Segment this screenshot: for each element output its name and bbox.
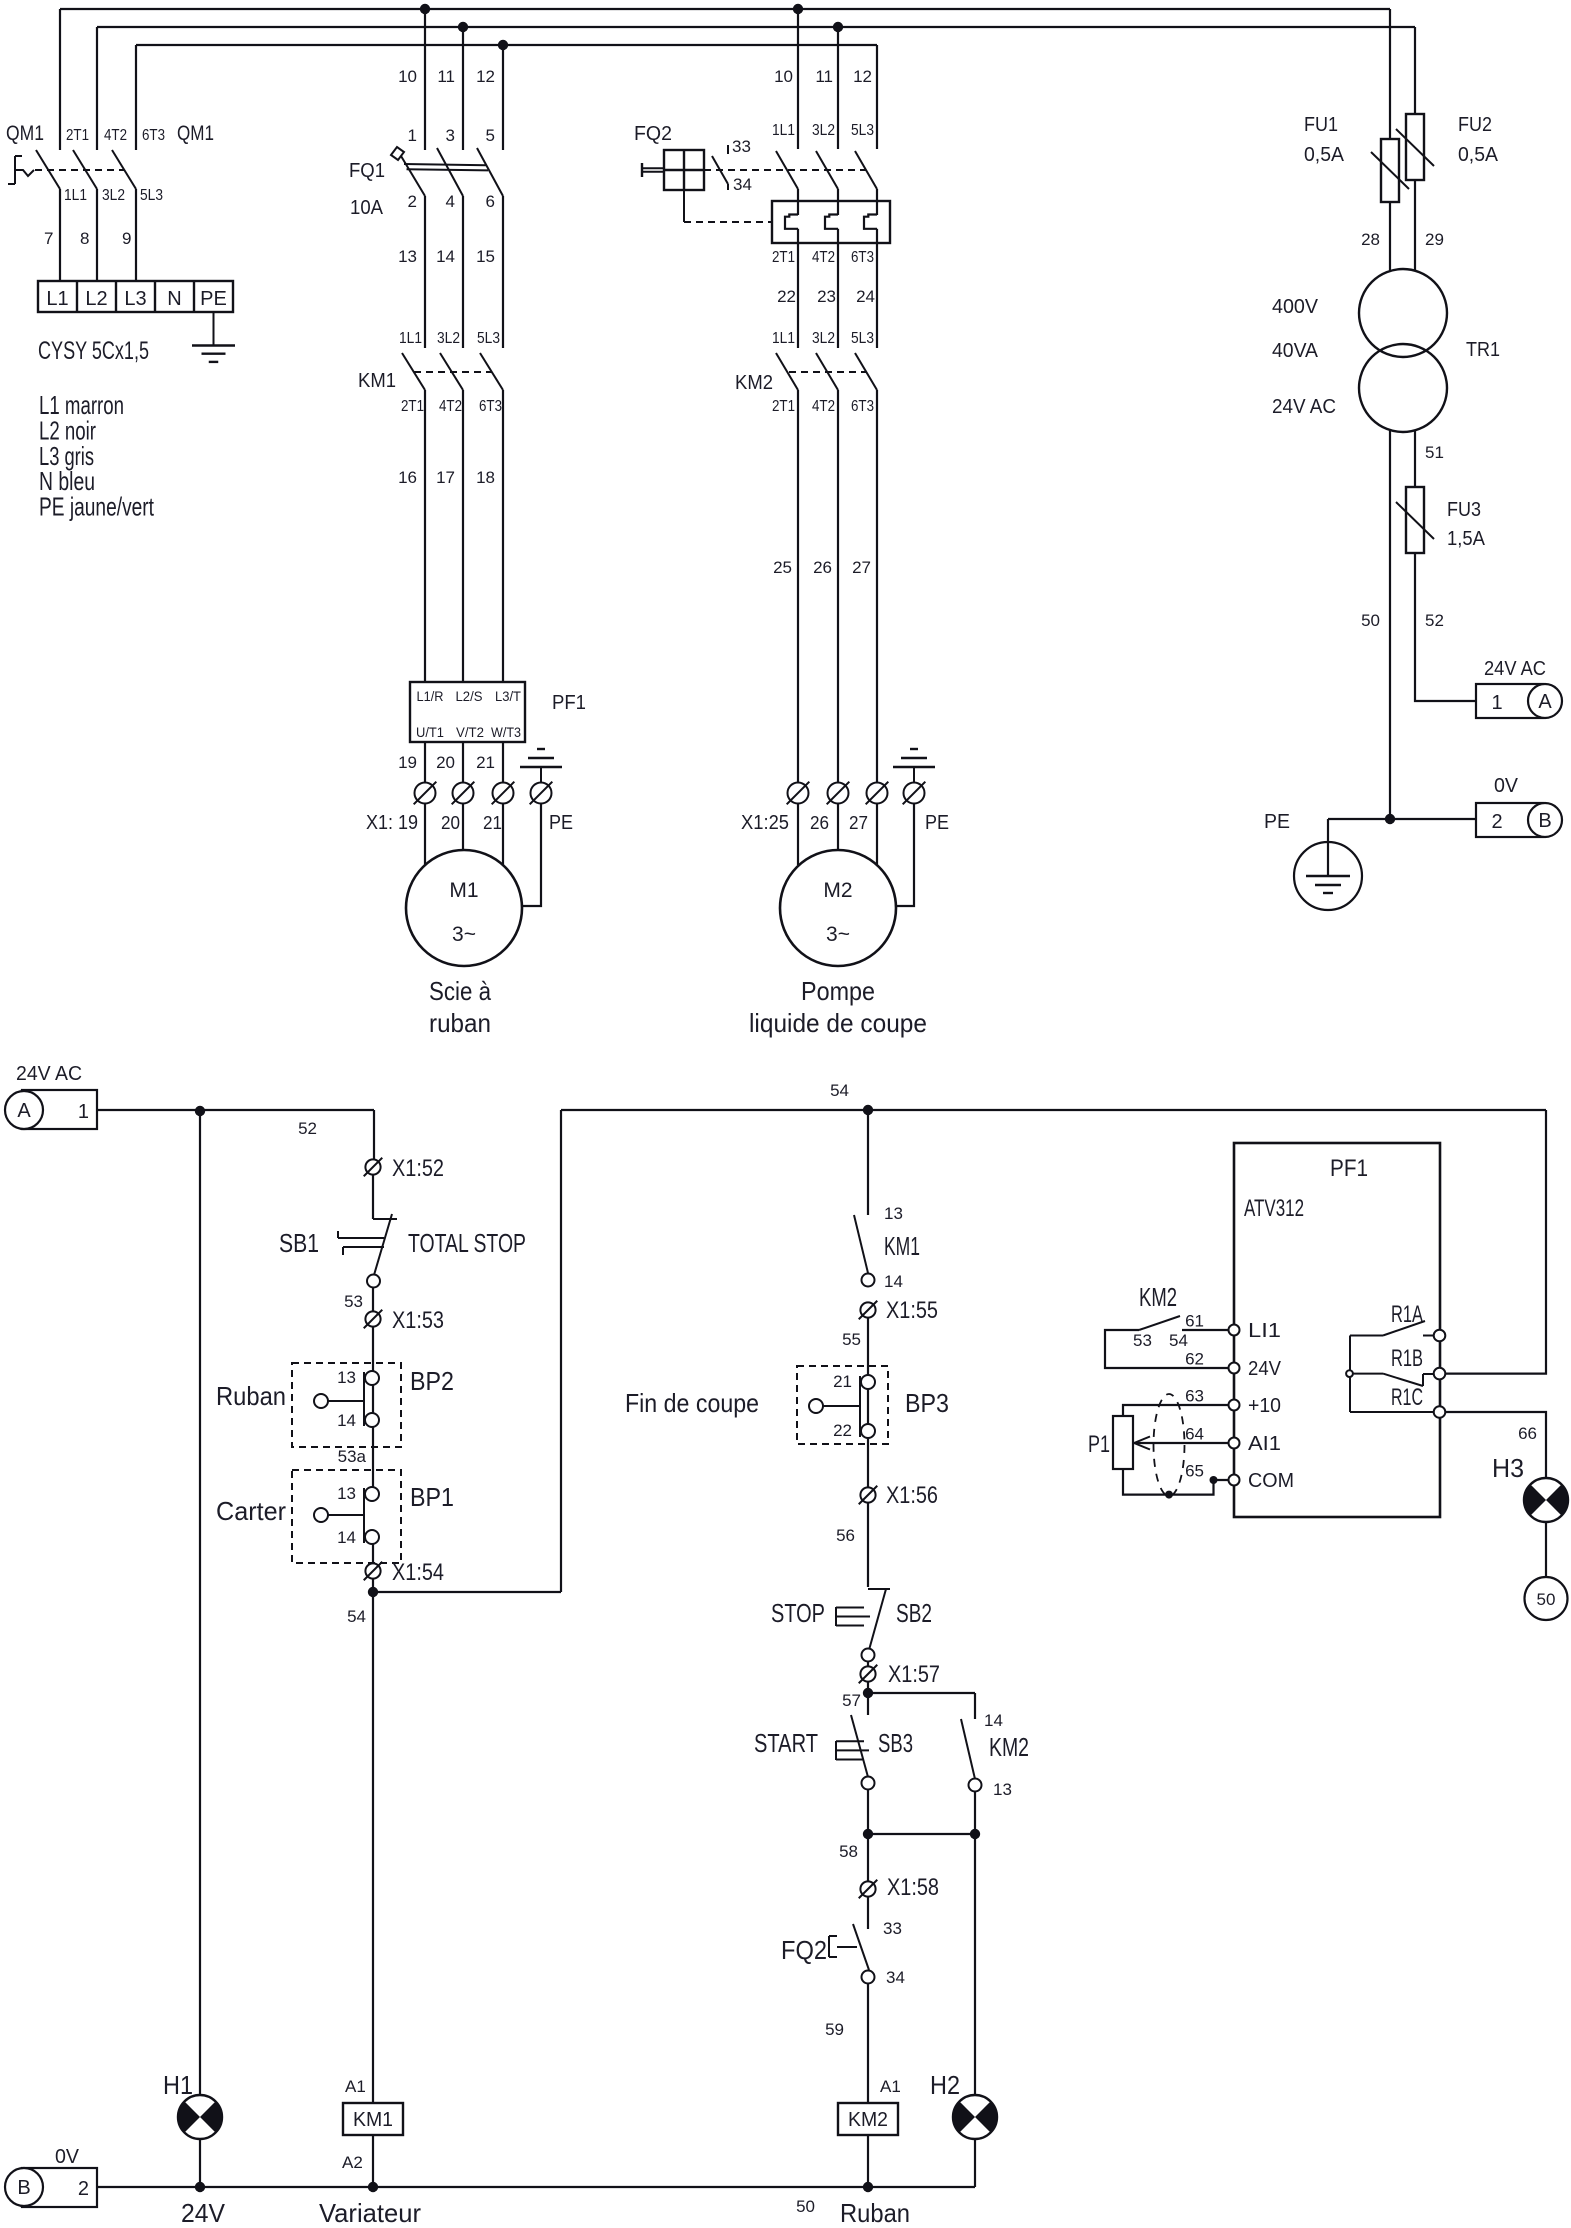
svg-text:0V: 0V	[1494, 775, 1519, 797]
svg-text:Scie à: Scie à	[429, 976, 491, 1006]
svg-text:KM2: KM2	[735, 372, 773, 394]
svg-text:2: 2	[408, 192, 417, 211]
svg-text:liquide de coupe: liquide de coupe	[749, 1008, 927, 1038]
svg-text:+10: +10	[1248, 1395, 1281, 1417]
svg-text:L3: L3	[124, 288, 146, 310]
svg-text:3L2: 3L2	[102, 187, 125, 204]
svg-text:21: 21	[483, 813, 502, 833]
svg-text:U/T1: U/T1	[416, 724, 444, 740]
svg-text:PE: PE	[925, 812, 949, 834]
svg-text:FU3: FU3	[1447, 499, 1481, 521]
svg-text:ATV312: ATV312	[1244, 1195, 1304, 1222]
svg-text:TOTAL STOP: TOTAL STOP	[408, 1228, 526, 1258]
svg-text:54: 54	[347, 1607, 366, 1626]
svg-text:53: 53	[1133, 1331, 1152, 1350]
svg-text:33: 33	[883, 1919, 902, 1938]
svg-text:400V: 400V	[1272, 296, 1319, 318]
svg-text:14: 14	[884, 1272, 903, 1291]
svg-text:0,5A: 0,5A	[1458, 144, 1499, 166]
svg-text:X1:58: X1:58	[887, 1874, 939, 1901]
svg-text:KM2: KM2	[1139, 1282, 1177, 1312]
svg-text:ruban: ruban	[429, 1008, 491, 1038]
svg-text:5L3: 5L3	[851, 330, 874, 347]
svg-text:65: 65	[1185, 1462, 1204, 1481]
svg-text:52: 52	[1425, 611, 1444, 630]
svg-text:56: 56	[836, 1526, 855, 1545]
svg-text:55: 55	[842, 1330, 861, 1349]
svg-text:53: 53	[344, 1292, 363, 1311]
svg-text:1L1: 1L1	[772, 122, 795, 139]
svg-text:4T2: 4T2	[104, 127, 127, 144]
svg-text:W/T3: W/T3	[491, 724, 521, 740]
svg-text:29: 29	[1425, 230, 1444, 249]
svg-text:V/T2: V/T2	[456, 724, 484, 740]
svg-text:50: 50	[1537, 1590, 1556, 1609]
svg-text:2T1: 2T1	[772, 398, 795, 415]
svg-text:6T3: 6T3	[851, 249, 874, 266]
svg-text:6T3: 6T3	[479, 398, 502, 415]
svg-text:Variateur: Variateur	[319, 2198, 421, 2228]
svg-text:2T1: 2T1	[401, 398, 424, 415]
svg-text:3L2: 3L2	[437, 330, 460, 347]
svg-text:1L1: 1L1	[64, 187, 87, 204]
svg-text:PF1: PF1	[552, 692, 586, 714]
svg-text:5L3: 5L3	[140, 187, 163, 204]
svg-text:54: 54	[830, 1081, 849, 1100]
svg-text:QM1: QM1	[6, 122, 44, 145]
svg-text:24V AC: 24V AC	[16, 1063, 82, 1085]
svg-text:53a: 53a	[338, 1447, 367, 1466]
svg-text:1L1: 1L1	[399, 330, 422, 347]
svg-text:3L2: 3L2	[812, 122, 835, 139]
svg-text:SB3: SB3	[878, 1728, 913, 1758]
svg-text:PE: PE	[200, 288, 227, 310]
svg-text:1L1: 1L1	[772, 330, 795, 347]
svg-text:N: N	[167, 288, 181, 310]
svg-text:5: 5	[486, 126, 495, 145]
svg-text:L1/R: L1/R	[417, 688, 444, 704]
svg-text:24V: 24V	[181, 2198, 226, 2228]
svg-text:13: 13	[337, 1368, 356, 1387]
svg-text:AI1: AI1	[1248, 1433, 1281, 1455]
svg-text:27: 27	[852, 558, 871, 577]
svg-text:4T2: 4T2	[812, 249, 835, 266]
svg-text:L2: L2	[85, 288, 107, 310]
svg-text:PE: PE	[1264, 811, 1290, 833]
svg-text:KM1: KM1	[353, 2109, 393, 2131]
svg-text:23: 23	[817, 287, 836, 306]
svg-text:Pompe: Pompe	[801, 976, 875, 1006]
svg-text:2: 2	[78, 2178, 89, 2200]
svg-text:12: 12	[476, 67, 495, 86]
svg-text:13: 13	[337, 1484, 356, 1503]
svg-text:0,5A: 0,5A	[1304, 144, 1345, 166]
svg-text:8: 8	[80, 229, 89, 248]
svg-text:63: 63	[1185, 1387, 1204, 1406]
svg-text:B: B	[1538, 810, 1551, 832]
svg-text:34: 34	[733, 175, 752, 194]
svg-text:L1: L1	[46, 288, 68, 310]
svg-text:1: 1	[78, 1101, 89, 1123]
svg-text:R1B: R1B	[1391, 1345, 1423, 1372]
svg-text:58: 58	[839, 1842, 858, 1861]
svg-text:BP2: BP2	[410, 1366, 454, 1396]
svg-text:4: 4	[446, 192, 455, 211]
svg-text:A: A	[17, 1100, 31, 1122]
svg-text:KM2: KM2	[989, 1732, 1029, 1762]
svg-text:X1: 19: X1: 19	[366, 812, 418, 834]
svg-text:PE: PE	[549, 812, 573, 834]
svg-text:3~: 3~	[826, 923, 850, 946]
svg-text:50: 50	[1361, 611, 1380, 630]
svg-text:QM1: QM1	[177, 122, 214, 145]
svg-text:11: 11	[815, 67, 833, 86]
svg-text:57: 57	[842, 1691, 861, 1710]
svg-text:BP3: BP3	[905, 1388, 949, 1418]
svg-text:9: 9	[122, 229, 131, 248]
svg-text:10: 10	[774, 67, 793, 86]
svg-text:17: 17	[436, 468, 455, 487]
svg-text:FQ2: FQ2	[634, 123, 672, 145]
svg-text:13: 13	[993, 1780, 1012, 1799]
svg-text:Ruban: Ruban	[840, 2198, 910, 2228]
svg-text:FU2: FU2	[1458, 114, 1492, 136]
svg-text:X1:56: X1:56	[886, 1482, 938, 1509]
svg-text:19: 19	[398, 753, 417, 772]
svg-text:5L3: 5L3	[851, 122, 874, 139]
svg-text:1,5A: 1,5A	[1447, 528, 1486, 550]
svg-text:3: 3	[446, 126, 455, 145]
svg-text:59: 59	[825, 2020, 844, 2039]
svg-text:FU1: FU1	[1304, 114, 1338, 136]
svg-text:0V: 0V	[55, 2146, 80, 2168]
svg-text:20: 20	[436, 753, 455, 772]
svg-text:M1: M1	[449, 879, 478, 902]
svg-text:H3: H3	[1492, 1453, 1524, 1483]
svg-text:62: 62	[1185, 1350, 1204, 1369]
svg-text:1: 1	[1491, 692, 1502, 714]
svg-text:26: 26	[810, 813, 829, 833]
svg-text:P1: P1	[1088, 1431, 1110, 1458]
svg-text:A1: A1	[880, 2077, 901, 2096]
svg-text:11: 11	[437, 67, 455, 86]
svg-text:BP1: BP1	[410, 1482, 454, 1512]
svg-text:SB1: SB1	[279, 1228, 319, 1258]
svg-text:CYSY 5Cx1,5: CYSY 5Cx1,5	[38, 337, 149, 365]
svg-text:X1:52: X1:52	[392, 1155, 444, 1182]
svg-text:4T2: 4T2	[812, 398, 835, 415]
svg-text:5L3: 5L3	[477, 330, 500, 347]
svg-text:X1:25: X1:25	[741, 812, 789, 834]
svg-text:Fin de coupe: Fin de coupe	[625, 1388, 759, 1418]
svg-text:24V AC: 24V AC	[1272, 396, 1336, 418]
svg-text:TR1: TR1	[1466, 339, 1500, 361]
svg-text:R1C: R1C	[1391, 1384, 1423, 1411]
svg-text:3L2: 3L2	[812, 330, 835, 347]
svg-text:PE jaune/vert: PE jaune/vert	[39, 492, 155, 522]
svg-text:FQ2: FQ2	[781, 1935, 827, 1965]
svg-text:LI1: LI1	[1248, 1320, 1281, 1342]
svg-text:10: 10	[398, 67, 417, 86]
svg-text:B: B	[17, 2177, 30, 2199]
svg-text:34: 34	[886, 1968, 905, 1987]
svg-text:22: 22	[777, 287, 796, 306]
svg-text:66: 66	[1518, 1424, 1537, 1443]
svg-text:2: 2	[1491, 811, 1502, 833]
svg-text:FQ1: FQ1	[349, 160, 385, 182]
svg-text:X1:57: X1:57	[888, 1661, 940, 1688]
svg-text:28: 28	[1361, 230, 1380, 249]
svg-text:10A: 10A	[350, 197, 384, 219]
svg-text:Carter: Carter	[216, 1496, 286, 1526]
svg-text:52: 52	[298, 1119, 317, 1138]
svg-text:13: 13	[398, 247, 417, 266]
svg-text:24V: 24V	[1248, 1358, 1282, 1380]
svg-text:L2/S: L2/S	[456, 688, 483, 704]
svg-text:A2: A2	[342, 2153, 363, 2172]
svg-text:51: 51	[1425, 443, 1444, 462]
svg-text:21: 21	[476, 753, 495, 772]
svg-text:54: 54	[1169, 1331, 1188, 1350]
svg-text:PF1: PF1	[1330, 1155, 1368, 1182]
svg-text:27: 27	[849, 813, 868, 833]
svg-text:H2: H2	[930, 2070, 960, 2100]
svg-text:13: 13	[884, 1204, 903, 1223]
svg-text:21: 21	[833, 1372, 852, 1391]
svg-text:64: 64	[1185, 1425, 1204, 1444]
svg-text:16: 16	[398, 468, 417, 487]
svg-text:24: 24	[856, 287, 875, 306]
svg-text:X1:55: X1:55	[886, 1297, 938, 1324]
svg-text:61: 61	[1185, 1312, 1204, 1331]
svg-text:24V AC: 24V AC	[1484, 658, 1546, 680]
svg-text:4T2: 4T2	[439, 398, 462, 415]
svg-text:50: 50	[796, 2197, 815, 2216]
svg-text:A1: A1	[345, 2077, 366, 2096]
svg-text:1: 1	[408, 126, 417, 145]
svg-text:14: 14	[436, 247, 455, 266]
svg-text:6: 6	[486, 192, 495, 211]
svg-text:M2: M2	[823, 879, 852, 902]
svg-text:26: 26	[813, 558, 832, 577]
svg-text:L3/T: L3/T	[495, 688, 521, 704]
svg-text:25: 25	[773, 558, 792, 577]
svg-text:A: A	[1538, 691, 1552, 713]
svg-text:6T3: 6T3	[142, 127, 165, 144]
svg-text:7: 7	[44, 229, 53, 248]
svg-text:SB2: SB2	[896, 1598, 932, 1628]
svg-text:33: 33	[732, 137, 751, 156]
svg-text:COM: COM	[1248, 1470, 1294, 1492]
svg-text:14: 14	[984, 1711, 1003, 1730]
svg-text:40VA: 40VA	[1272, 340, 1319, 362]
svg-text:2T1: 2T1	[66, 127, 89, 144]
svg-text:18: 18	[476, 468, 495, 487]
svg-text:X1:54: X1:54	[392, 1559, 444, 1586]
svg-text:2T1: 2T1	[772, 249, 795, 266]
svg-text:15: 15	[476, 247, 495, 266]
svg-text:22: 22	[833, 1421, 852, 1440]
svg-text:Ruban: Ruban	[216, 1381, 286, 1411]
svg-text:KM1: KM1	[884, 1231, 920, 1261]
svg-text:3~: 3~	[452, 923, 476, 946]
svg-text:START: START	[754, 1728, 818, 1758]
svg-text:H1: H1	[163, 2070, 193, 2100]
svg-text:KM2: KM2	[848, 2109, 888, 2131]
svg-text:14: 14	[337, 1411, 356, 1430]
svg-text:12: 12	[853, 67, 872, 86]
svg-text:6T3: 6T3	[851, 398, 874, 415]
svg-text:X1:53: X1:53	[392, 1307, 444, 1334]
svg-text:KM1: KM1	[358, 370, 396, 392]
svg-text:20: 20	[441, 813, 460, 833]
svg-text:STOP: STOP	[771, 1598, 825, 1628]
svg-text:14: 14	[337, 1528, 356, 1547]
